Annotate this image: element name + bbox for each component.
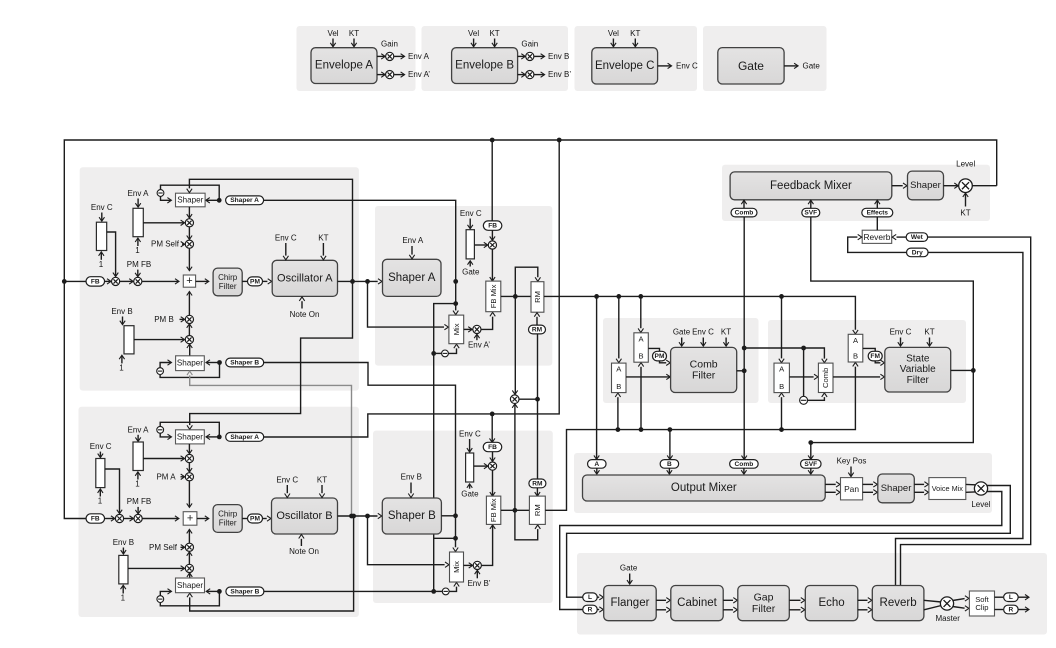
svg-text:Gate: Gate (462, 267, 480, 276)
gate box (718, 48, 784, 84)
multiplier FB x EnvC (fbmix A) (488, 241, 496, 249)
svg-text:Env C: Env C (459, 429, 481, 438)
svg-text:Env C: Env C (692, 328, 714, 337)
RM mix box A (531, 282, 544, 313)
multiplier Env A' (473, 325, 481, 333)
wire bracket FB Mix B to RM B bottom (515, 510, 538, 540)
wire Env B slider to multiplier (osc B) (128, 567, 184, 569)
svg-text:R: R (1009, 606, 1014, 613)
slider Env C (osc B) (96, 459, 105, 488)
svg-text:Effects: Effects (867, 210, 889, 217)
svg-text:Reverb: Reverb (863, 232, 890, 242)
wire feedback loop top (level mult to FB pills) (64, 140, 996, 519)
oscillator B box (272, 498, 338, 534)
junction FB drop to pill B (490, 412, 495, 417)
arrow envelope C output (658, 65, 671, 67)
shaper B box (382, 498, 441, 534)
arrow 1 into Env A slider (osc A) (137, 239, 139, 247)
svg-text:SVF: SVF (804, 210, 817, 217)
junction shaper A pill (osc A top) (217, 198, 222, 203)
slider Env B (osc B) (119, 555, 128, 584)
pill PM (osc B) (248, 514, 263, 523)
svg-text:Gap: Gap (754, 591, 774, 603)
arrow PM Self into multiplier (osc B) (181, 546, 185, 548)
svg-text:PM: PM (655, 353, 665, 360)
envelope B box (452, 48, 518, 84)
svg-text:Env B: Env B (548, 52, 569, 61)
svg-text:Shaper B: Shaper B (388, 510, 436, 522)
wire comb signal vertical (743, 217, 745, 459)
svg-text:Env C: Env C (676, 61, 698, 70)
arrow Env C into comb filter (702, 338, 704, 346)
echo box (805, 586, 858, 621)
arrow PM pill into oscillator A (263, 280, 268, 282)
junction comb output (742, 368, 747, 373)
wire multiplier to FB Mix A top (491, 249, 493, 280)
svg-text:Key Pos: Key Pos (837, 457, 867, 466)
svg-text:KT: KT (317, 475, 327, 484)
svg-text:Shaper: Shaper (910, 180, 941, 191)
reverb mix box (feedback tap) (862, 230, 892, 243)
reverb box (effects) (872, 586, 924, 621)
wire feedback into osc A FB pill (64, 280, 86, 282)
arrow effects pill into feedback mixer (876, 201, 878, 209)
invert circle before Mix B (442, 588, 449, 595)
multiplier env A (osc B) (185, 454, 193, 462)
arrow B pill into output mixer (668, 468, 670, 474)
arrow Env A into slider (osc A) (137, 199, 139, 207)
pill FB (osc A) (86, 277, 105, 286)
arrow to PM FB multiplier (osc B) (124, 518, 133, 520)
arrow A pill into output mixer (596, 468, 598, 474)
multiplier env B (osc B) (185, 564, 193, 572)
arrow 1 into Env B slider (osc B) (122, 586, 124, 594)
wire FM pill into svf (875, 361, 880, 363)
svg-text:Comb: Comb (735, 210, 754, 217)
svg-text:Env A: Env A (402, 236, 424, 245)
wire to PM Self multiplier (osc B) (188, 552, 190, 564)
svg-text:Shaper A: Shaper A (230, 434, 259, 441)
svg-text:KT: KT (924, 328, 934, 337)
wire gap filter to echo (stereo) (789, 599, 800, 601)
wire shaper B pill tap (263, 363, 455, 548)
oscillator A box (272, 260, 337, 296)
multiplier gain env B (526, 52, 534, 60)
junction RM B row to comb A/B lower B (616, 427, 621, 432)
svg-text:R: R (588, 606, 593, 613)
A/B mix box comb lower (612, 363, 627, 393)
arrow to PM FB multiplier (120, 280, 133, 282)
wire Env C slider to FB multiplier (fbmix A) (474, 244, 487, 246)
svg-text:Shaper: Shaper (177, 359, 203, 368)
svg-text:PM A: PM A (156, 472, 176, 481)
arrow Gate into flanger (629, 574, 631, 584)
junction RM B row to output mixer B pill (668, 427, 673, 432)
wire PM Self mult to adder (osc A) (188, 249, 190, 271)
wire invert to small shaper left (osc A bottom) (160, 363, 171, 368)
gap filter box (738, 586, 790, 621)
pill FB (fbmix A) (483, 221, 502, 230)
wire PM A mult to adder (osc B) (188, 481, 190, 507)
junction osc A out raw tap (365, 279, 370, 284)
wire adder to chirp filter (osc A) (196, 280, 209, 282)
arrow svf pill into feedback mixer (810, 201, 812, 209)
wire B row to output mixer B pill (669, 430, 671, 460)
svg-text:Env B: Env B (113, 538, 134, 547)
wire to PM B multiplier (osc A) (188, 324, 190, 335)
voice mix box (929, 478, 966, 500)
junction FB Mix B output (513, 508, 518, 513)
svg-text:Env A: Env A (128, 189, 150, 198)
wire reverb to master multiplier (stereo) (924, 600, 941, 602)
wire to PM Self multiplier (osc A) (188, 227, 190, 239)
svg-text:Envelope A: Envelope A (315, 60, 374, 72)
pan box (841, 478, 863, 500)
pill SVF (output mixer) (801, 460, 822, 469)
arrow Key Pos into pan (850, 467, 852, 477)
wire bracket negative loop (osc B bottom) (160, 591, 219, 605)
FB Mix box B (486, 496, 500, 524)
svg-text:B: B (667, 461, 672, 468)
wire chirp filter to PM pill (osc A) (242, 280, 248, 282)
wire oscillator A output row (338, 280, 378, 282)
multiplier PM Self (osc A) (185, 240, 193, 248)
panel envelope C (575, 26, 698, 91)
svg-text:Comb: Comb (690, 358, 718, 370)
junction RM A row to comb A/B upper (638, 294, 643, 299)
feedback mixer box (730, 172, 892, 200)
svg-text:Dry: Dry (912, 249, 923, 256)
arrow KT into level multiplier (965, 193, 967, 206)
junction shaper A pill (osc B top) (217, 435, 222, 440)
svg-text:Flanger: Flanger (610, 597, 649, 609)
svg-text:Gain: Gain (521, 40, 538, 49)
pill FB (fbmix B) (483, 442, 502, 451)
wire RM B output row (545, 367, 855, 511)
wire FB Mix B out up to ring mult (514, 404, 516, 510)
junction feedback drop A mixer (490, 138, 495, 143)
wire soft clip to R out (995, 609, 1004, 611)
wire echo to reverb (stereo) (858, 599, 868, 601)
pill L (final output) (1004, 593, 1019, 602)
svg-text:Shaper: Shaper (177, 196, 203, 205)
wire dry line from effects reverb (896, 252, 1023, 585)
wire svf signal to feedback mixer svf pill (811, 217, 974, 371)
pill R (final output) (1004, 605, 1019, 614)
wire ring mult output (519, 398, 537, 400)
wire wet line from effects reverb (901, 237, 1031, 585)
multiplier level (feedback) (959, 179, 973, 193)
slider Env C (fbmix B) (466, 453, 474, 482)
wire product to RM pills column (537, 334, 539, 399)
svg-text:Env C: Env C (460, 209, 482, 218)
wire soft clip to L out (995, 596, 1004, 598)
svg-text:PM B: PM B (154, 315, 174, 324)
multiplier level (output mixer) (974, 482, 987, 495)
wire bracket negative loop (osc B top) (160, 422, 219, 437)
junction shaper A to mix/minus (453, 301, 458, 306)
multiplier FB x EnvC (fbmix B) (488, 462, 496, 470)
arrow to Env A label (394, 55, 404, 57)
svg-text:1: 1 (121, 594, 126, 603)
wire Mix A to Env A' multiplier (464, 328, 472, 330)
svg-text:Mix: Mix (452, 323, 461, 335)
shaper box (feedback mixer) (908, 171, 944, 200)
wire osc B self out to bottom small shaper (PM Self B) (190, 516, 354, 611)
svg-text:+: + (187, 512, 193, 524)
svg-text:Envelope C: Envelope C (595, 60, 654, 72)
svg-text:Env B’: Env B’ (467, 579, 490, 588)
junction comb invert tap (801, 346, 806, 351)
wire shaper A out tap down (455, 281, 457, 310)
wire small shaper to env A multiplier (osc B) (188, 444, 190, 454)
wire adder to chirp filter (osc B) (197, 518, 209, 520)
wire A row into comb A/B lower top (618, 296, 620, 358)
svg-text:Clip: Clip (975, 603, 988, 612)
svg-text:Shaper A: Shaper A (230, 197, 259, 204)
arrow Env C into slider (osc A) (101, 213, 103, 221)
svg-text:Cabinet: Cabinet (677, 597, 717, 609)
arrow FB pill to mult (osc B) (105, 518, 115, 520)
small shaper box (osc A top) (176, 193, 206, 207)
wire flanger to cabinet (stereo) (656, 599, 666, 601)
wire pill to small shaper input (osc A top) (206, 199, 219, 201)
svg-text:Vel: Vel (608, 29, 619, 38)
wire FB Mix A output to RM A (501, 295, 531, 297)
junction RM B row to svf A/B lower B (779, 427, 784, 432)
multiplier PM B (osc A) (185, 315, 193, 323)
multiplier FB x EnvC (osc B) (115, 514, 123, 522)
svg-text:Note On: Note On (290, 310, 320, 319)
svg-text:FB: FB (91, 515, 100, 522)
junction shaper B to mix/minus (453, 536, 458, 541)
slider Env C (osc A) (96, 222, 106, 250)
svg-text:Comb: Comb (821, 368, 830, 388)
arrow L final out (1018, 596, 1028, 598)
svg-text:Comb: Comb (735, 461, 754, 468)
wire bracket FB Mix A to RM A top (515, 267, 538, 296)
arrow comb pill into output mixer (743, 468, 745, 474)
wire Env B slider to multiplier (osc A) (134, 339, 184, 341)
wire Mix B to Env B' multiplier (464, 564, 473, 566)
panel feedback mixer section (722, 165, 990, 221)
multiplier gain env B' (526, 71, 534, 79)
wire oscillator B output row (338, 515, 378, 517)
adder box (osc A) (183, 275, 195, 287)
wire svf drop to output mixer pill (810, 443, 812, 460)
wire pill to small shaper input (osc B top) (206, 436, 219, 438)
small shaper box (osc B bottom) (176, 578, 205, 593)
pill B (output mixer) (660, 460, 679, 469)
panel shaper B section (373, 431, 553, 603)
envelope A box (311, 48, 377, 84)
svg-text:Wet: Wet (911, 234, 924, 241)
multiplier PM A (osc B) (185, 473, 193, 481)
arrow Env B into slider (osc A) (122, 317, 124, 325)
arrow Env B into slider (osc B) (122, 548, 124, 554)
multiplier PM Self (osc B) (185, 543, 193, 551)
svg-text:Env A’: Env A’ (408, 70, 430, 79)
svg-text:1: 1 (135, 480, 140, 489)
svg-text:Note On: Note On (289, 547, 319, 556)
wire minus B tap to invert (434, 590, 443, 592)
arrow Note On into oscillator A (301, 301, 303, 308)
panel oscillator B section (79, 407, 359, 617)
arrow Env B into shaper B (410, 483, 412, 494)
svg-text:L: L (588, 594, 592, 601)
pill RM (A) (529, 325, 546, 334)
wire osc A PM-B chain: small shaper up to multiplier (189, 344, 191, 355)
panel envelope A (297, 26, 416, 91)
pill Comb (feedback mixer) (731, 208, 757, 217)
svg-text:Filter: Filter (219, 518, 237, 527)
arrow Vel into envelope B (473, 39, 475, 47)
wire shaper B self pill tap to minus column (263, 590, 433, 592)
arrow KT into oscillator B (321, 485, 323, 493)
junction svf line to output mixer pill (808, 440, 813, 445)
wire reverb mix to effects pill (876, 217, 878, 230)
svg-text:Voice Mix: Voice Mix (932, 484, 964, 493)
svg-text:RM: RM (533, 291, 542, 303)
arrow Env C into slider (fbmix B) (469, 439, 471, 452)
arrow Env B' into multiplier (476, 571, 478, 579)
wire A row to output mixer A pill (596, 296, 598, 459)
svg-text:1: 1 (99, 260, 104, 269)
chirp filter box (osc B) (213, 505, 242, 533)
pill Effects (feedback mixer) (862, 208, 893, 217)
svg-text:FB: FB (91, 278, 100, 285)
junction shaper B pill (osc A bottom) (217, 360, 222, 365)
wire FB pill to multiplier (fbmix B) (492, 452, 494, 461)
wire Env A' mult to FB Mix A bottom (481, 317, 492, 330)
wire envelope B out 1 (518, 55, 525, 57)
wire svf output (951, 369, 974, 371)
wire pill to small shaper input (osc B bottom) (207, 590, 220, 592)
wire output mixer to pan (stereo) (825, 483, 836, 485)
panel oscillator A section (80, 167, 359, 390)
wire PM B mult to adder bottom (osc A) (188, 292, 190, 315)
pill FB (osc B) (86, 514, 105, 523)
wire shaper A out to minus column (434, 304, 456, 592)
wire shaper B out to minus column (434, 537, 456, 539)
svg-text:B: B (853, 352, 858, 361)
arrow comb pill into feedback mixer (743, 201, 745, 209)
junction RM A row to output mixer A pill (594, 294, 599, 299)
panel effects section (577, 553, 1047, 635)
svg-text:Vel: Vel (468, 29, 479, 38)
panel envelope B (422, 26, 569, 91)
svg-text:Env C: Env C (90, 442, 112, 451)
wire invert to comb crossfade bottom (808, 397, 825, 400)
invert circle (comb crossfade) (800, 396, 808, 404)
shaper box (output mixer) (878, 474, 915, 503)
svg-text:L: L (1009, 594, 1013, 601)
wire invert to Mix A bottom (449, 348, 457, 353)
arrow Env C into oscillator A (285, 243, 287, 256)
arrow 1 into Env C slider (osc A) (100, 252, 102, 259)
output mixer box (583, 475, 826, 501)
svg-text:Shaper: Shaper (177, 432, 203, 441)
arrow PM A into multiplier (181, 476, 185, 478)
junction minus B tap (431, 589, 436, 594)
wire PM A path osc A out down to osc B top shaper (190, 281, 353, 425)
svg-text:Filter: Filter (219, 282, 237, 291)
arrow Env A into slider (osc B) (137, 435, 139, 441)
svg-text:Shaper A: Shaper A (388, 272, 436, 284)
arrow Gate into comb filter (681, 338, 683, 346)
junction osc A out self tap (350, 279, 355, 284)
A/B mix box svf upper (848, 334, 863, 362)
svg-text:State: State (906, 353, 930, 364)
wire dry pill into reverb mix (848, 237, 907, 252)
svg-text:RM: RM (532, 326, 543, 333)
slider Env B (osc A) (124, 326, 134, 354)
wire level multiplier to feedback loop (972, 185, 996, 187)
arrow gate output (784, 65, 797, 67)
svg-text:Pan: Pan (844, 484, 859, 494)
wire Env A slider to multiplier (osc A) (143, 222, 184, 224)
comb crossfade box (818, 363, 833, 392)
arrow Env C into oscillator B (286, 485, 288, 493)
wire B row into svf A/B lower bottom (781, 397, 783, 429)
svg-text:Env B: Env B (111, 307, 132, 316)
svg-text:Shaper: Shaper (177, 581, 203, 590)
arrow 1 into Env B slider (osc A) (121, 356, 123, 364)
small shaper box (osc A bottom) (176, 356, 205, 371)
flanger box (604, 586, 657, 621)
wire osc A raw to Mix A left (368, 281, 445, 327)
wire A row into comb A/B upper top (640, 296, 642, 328)
pill Shaper A (osc B) (226, 433, 264, 442)
pill Dry (907, 248, 929, 257)
svg-text:Env A: Env A (128, 425, 150, 434)
cabinet box (671, 586, 723, 621)
multiplier Env B' (473, 561, 481, 569)
junction RM B row to comb A/B upper B (639, 427, 644, 432)
multiplier env A (osc A) (185, 219, 193, 227)
svg-text:Variable: Variable (900, 364, 936, 375)
wire feedback mixer to shaper (892, 185, 903, 187)
wire to PM A multiplier (osc B) (188, 463, 190, 472)
junction osc B raw tap (365, 514, 370, 519)
wire PM FB mult to adder (osc B) (143, 518, 179, 520)
multiplier gain env A' (386, 71, 394, 79)
arrow Env C into slider (osc B) (99, 452, 101, 458)
pill PM (osc A) (248, 277, 263, 286)
wire wet pill into reverb mix (897, 236, 907, 238)
wire comb A/B upper to PM pill (648, 348, 659, 351)
state variable filter box (885, 347, 951, 392)
junction FB Mix A output (513, 294, 518, 299)
wire comb crossfade to svf (833, 376, 880, 378)
junction feedback to osc A FB (62, 279, 67, 284)
panel output mixer section (574, 453, 992, 513)
svg-text:+: + (186, 275, 192, 287)
junction minus A tap (431, 351, 436, 356)
wire small shaper to env A multiplier (osc A) (188, 207, 190, 218)
svg-text:Mix: Mix (452, 561, 461, 573)
wire B row into comb A/B lower bottom (617, 397, 619, 429)
wire invert to small shaper left (osc B top) (160, 433, 171, 437)
arrow KT into svf (929, 338, 931, 346)
svg-text:Gate: Gate (803, 61, 821, 70)
pill Shaper A (osc A) (226, 196, 264, 205)
arrow Env A' into multiplier (476, 335, 478, 341)
junction shaper A out (453, 279, 458, 284)
arrow Gate into slider (fbmix A) (469, 261, 471, 266)
multiplier PM FB (osc B) (134, 514, 142, 522)
pill Wet (906, 233, 928, 242)
